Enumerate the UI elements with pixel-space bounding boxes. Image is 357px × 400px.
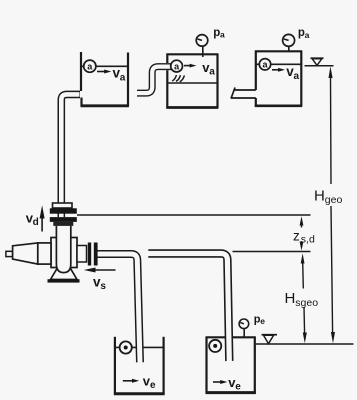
pump discharge flange plate B (50, 217, 77, 222)
svg-text:a: a (209, 67, 215, 78)
dimension H_sgeo vertical line (301, 253, 307, 343)
svg-text:a: a (220, 30, 225, 40)
arrow v_d discharge velocity (40, 205, 45, 231)
T2 right wall (216, 54, 218, 109)
svg-text:a: a (305, 30, 310, 40)
T1 left wall upper (80, 52, 82, 91)
T3 right wall (300, 51, 302, 107)
node a measuring point tank T3 (259, 59, 270, 70)
T2 water line (167, 82, 217, 84)
tank T4 bottom-left open suction tank (114, 337, 165, 395)
T1 water line (81, 65, 128, 67)
svg-text:H: H (285, 290, 296, 307)
pump discharge flange plate A (50, 208, 77, 213)
T3 inlet pipe bottom line (231, 97, 256, 99)
gauge pressure gauge tank T3 (283, 34, 295, 52)
pump foot base (48, 279, 80, 282)
wire water level line top right (305, 65, 334, 67)
svg-text:d: d (33, 217, 39, 228)
pump motor cone (13, 243, 38, 264)
svg-text:z: z (293, 228, 300, 243)
arrow v_s suction velocity (84, 268, 116, 273)
arrow v_a tank T2 (184, 64, 197, 68)
svg-text:H: H (314, 188, 325, 205)
svg-text:a: a (294, 71, 300, 82)
svg-text:s: s (100, 281, 106, 292)
arrow v_e tank T5 (213, 380, 227, 384)
wire water level line bottom right (256, 343, 354, 345)
dimension H_geo vertical line (329, 66, 336, 343)
T1 bottom (81, 104, 129, 107)
tank T2 top-middle closed tank (166, 54, 218, 109)
T5 top lid (206, 336, 256, 338)
svg-text:geo: geo (325, 194, 343, 206)
T2 left wall lower (166, 70, 168, 108)
T4 right wall (163, 337, 165, 395)
pump bearing block (38, 243, 51, 264)
gauge pressure gauge tank T5 (239, 319, 249, 338)
T3 top lid (255, 50, 302, 52)
pump discharge collar B (53, 222, 73, 226)
arrow v_a tank T1 (97, 70, 111, 74)
T3 left wall lower (255, 98, 257, 107)
T2 left wall upper (166, 54, 168, 64)
T1 right wall (127, 53, 129, 107)
node e measuring point tank T5 (209, 340, 221, 352)
T3 inlet pipe top line (235, 89, 256, 91)
T5 right wall (254, 337, 256, 394)
wire S-pipe into tank T2 (137, 67, 173, 94)
T3 bottom (255, 105, 302, 108)
arrow v_e tank T4 (123, 379, 139, 383)
pump suction nozzle (77, 246, 87, 263)
pump suction flange plate 2 (94, 243, 98, 266)
svg-text:sgeo: sgeo (295, 297, 318, 309)
gauge pressure gauge tank T2 (196, 35, 208, 57)
tank T1 top-left open tank (81, 52, 129, 107)
node e measuring point tank T4 (120, 341, 132, 353)
pump shaft stub (6, 251, 13, 256)
T4 left wall (114, 337, 116, 395)
svg-text:e: e (235, 382, 241, 393)
wire suction pipe from tank T4 to pump (97, 254, 140, 363)
tank T5 bottom-right closed suction tank (206, 337, 256, 394)
T2 bottom (166, 106, 218, 109)
pump suction flange plate 1 (88, 243, 91, 266)
arrow v_a tank T3 (272, 68, 285, 72)
T3 water line (256, 63, 301, 65)
wire extension line z_sd bottom (233, 251, 311, 253)
T4 bottom (114, 392, 165, 395)
T4 water line (115, 346, 164, 348)
water level symbol bottom right (262, 335, 278, 344)
pump P centrifugal pump (6, 203, 98, 283)
node a measuring point tank T2 (171, 60, 183, 72)
pump bearing casing (51, 238, 77, 268)
node a measuring point tank T1 (84, 60, 96, 72)
wire extension line z_sd top (77, 214, 311, 216)
pump foot skirt (51, 269, 78, 280)
dimension z_sd vertical line (300, 216, 304, 250)
svg-text:e: e (260, 316, 265, 326)
T5 bottom (206, 391, 256, 394)
tank T3 top-right closed tank (231, 51, 302, 107)
T1 left wall lower piece (80, 98, 82, 107)
wire discharge pipe from pump up to tank T1 (61, 94, 80, 217)
T3 inlet pipe break cut (231, 88, 235, 99)
svg-text:s,d: s,d (301, 234, 315, 246)
T5 left wall (205, 337, 207, 394)
T2 top lid (167, 53, 219, 55)
svg-text:e: e (150, 380, 156, 391)
pump discharge collar top (53, 203, 73, 208)
svg-text:a: a (120, 73, 126, 84)
pump body barrel (56, 226, 70, 273)
T3 left wall upper (255, 51, 257, 91)
splash marks tank T2 (172, 75, 184, 82)
water level symbol top right (311, 58, 324, 65)
wire pipe into tank T5 (148, 254, 229, 362)
